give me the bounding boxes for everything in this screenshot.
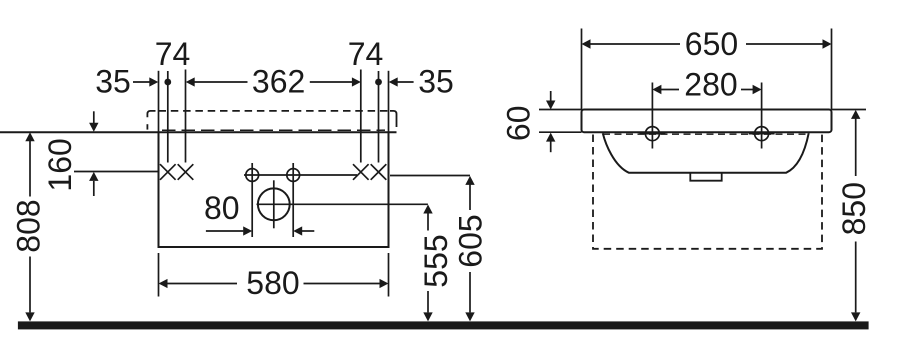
svg-text:555: 555 [418,234,454,287]
dimension 80: left arrow [206,230,244,232]
svg-text:362: 362 [252,64,305,100]
dimension 280: extension lines down to tap holes [651,83,653,149]
drain circle vertical centerline [273,180,275,228]
hidden rear rim edge (dashed) [603,133,809,135]
dimension 808: line and arrows [25,132,34,141]
dimension dot left 74 [164,79,171,86]
rim top extension line left [539,109,582,111]
dimension 35 left: stem and arrow [133,81,150,83]
extension line cabinet left edge [158,71,160,132]
hidden pedestal outline (dashed) [593,135,822,249]
washbasin dashed outline (left view) [147,111,155,117]
dimension 160: top arrow [93,111,95,123]
faucet hole circle 2 [287,169,300,182]
drain fitting [690,173,721,181]
tap hole circle 1 with crosshair [639,133,665,135]
extension line cabinet right edge [388,71,390,132]
850 reference line at rim top [832,109,867,111]
drain circle horizontal centerline (extends to 555 dim) [257,203,428,205]
svg-text:650: 650 [685,26,738,62]
dimension 60: top arrow [550,91,552,101]
svg-text:35: 35 [418,64,454,100]
svg-text:35: 35 [95,64,131,100]
reference line at screw height (160 dim) [74,171,159,173]
dimension 850: arrows and line [851,110,860,119]
dimension 280: arrows [652,85,661,95]
basin bowl profile [603,133,809,173]
tap hole circle 2 with crosshair [749,133,775,135]
extension line screw hole 1 [167,71,169,163]
svg-text:80: 80 [204,190,240,226]
svg-text:74: 74 [348,36,384,72]
faucet hole circle vertical centerline 1 (also 80-dim extension) [251,163,253,237]
dimension 35 right: arrow and stem [389,77,398,86]
svg-text:160: 160 [42,138,78,191]
svg-text:605: 605 [453,214,489,267]
dimension 650: extension lines [581,29,583,110]
dimension 555: arrows and line [423,205,432,214]
svg-text:580: 580 [246,265,299,301]
dimension 580: extension lines [158,253,160,297]
basin bottom reference line (left view) [0,131,397,133]
floor line [18,321,869,329]
dimension dot right 74 [375,79,382,86]
horizontal centerline through small circles [244,174,357,176]
reference line at screw height right (605 dim) [390,175,470,177]
washbasin rim (right view) [582,110,832,133]
svg-text:850: 850 [836,182,872,235]
dimension 605: arrows and line [465,176,474,185]
screw mark X2 [178,164,194,180]
dimension 60: bottom arrow [546,133,555,142]
extension line screw hole 4 [378,71,380,163]
screw mark X1 [160,164,176,180]
faucet hole circle 1 [246,169,259,182]
svg-text:808: 808 [11,199,47,252]
dimension 580: line and arrows [159,279,168,288]
dimension 160: bottom arrow [89,172,98,181]
rim bottom extension line left [539,131,582,133]
extension line screw hole 2 [185,70,187,163]
cabinet top hidden edge (dashed) [162,129,385,131]
dimension 650: line and arrows [582,39,591,49]
dimension 362: arrows and line [186,77,195,86]
drain hole circle [258,188,290,220]
svg-text:280: 280 [684,67,737,103]
vanity cabinet outline [159,132,389,247]
screw mark X3 [353,164,369,180]
screw mark X4 [371,164,387,180]
extension line screw hole 3 [360,70,362,163]
svg-text:60: 60 [501,106,537,142]
svg-text:74: 74 [155,36,191,72]
dimension 80: right arrow [293,226,302,235]
faucet hole circle vertical centerline 2 (also 80-dim extension) [292,163,294,237]
